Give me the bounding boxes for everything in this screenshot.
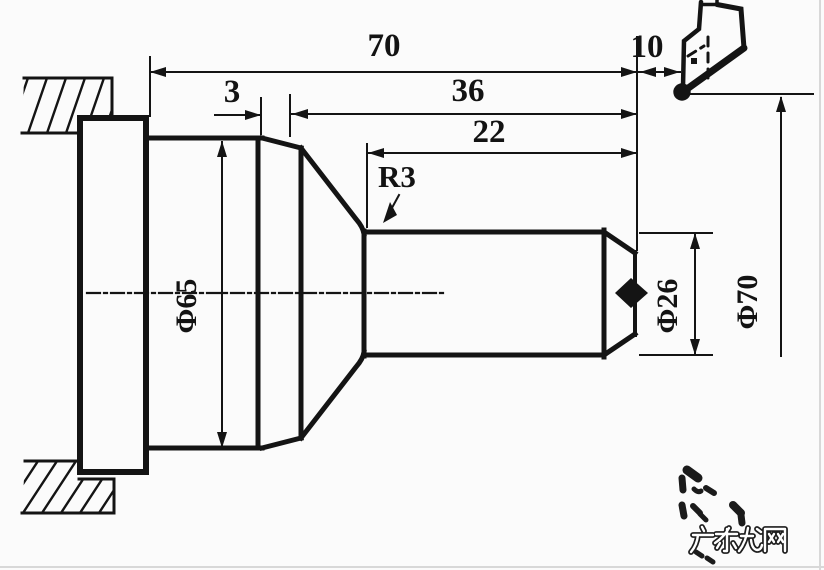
arrow dia26 up bbox=[690, 233, 700, 249]
R3 leader bbox=[387, 195, 399, 217]
arrow R3 bbox=[383, 202, 397, 223]
top chamfer bbox=[262, 138, 301, 148]
body bottom edge bbox=[146, 446, 262, 451]
arrow dia65 up bbox=[217, 141, 227, 157]
watermark text white fill bbox=[691, 527, 785, 552]
dim line dia65 bbox=[221, 142, 223, 447]
chuck jaw bottom step bbox=[22, 479, 114, 513]
body section line x258 bbox=[256, 138, 261, 448]
extension line x290 bbox=[289, 95, 291, 136]
arrow 36 left bbox=[292, 109, 308, 119]
svg-text:10: 10 bbox=[631, 29, 664, 65]
chuck jaw bottom outline bbox=[25, 460, 79, 463]
shaft bottom edge bbox=[364, 353, 604, 358]
svg-text:3: 3 bbox=[224, 74, 241, 110]
dia26 extension top bbox=[640, 232, 712, 234]
svg-text:22: 22 bbox=[473, 114, 506, 150]
tool top notch bbox=[701, 0, 717, 5]
dim line 70 bbox=[150, 71, 637, 73]
dim line 36 bbox=[291, 113, 637, 115]
body top edge bbox=[146, 136, 262, 141]
arrow 22 left bbox=[368, 148, 384, 158]
svg-text:R3: R3 bbox=[378, 159, 416, 194]
arrow 70 left bbox=[150, 67, 166, 77]
centerline bbox=[87, 292, 443, 294]
center drill mark diamond bbox=[615, 278, 648, 308]
arrow 70 right bbox=[621, 67, 637, 77]
arrow 10 right bbox=[664, 67, 680, 77]
part flange bbox=[80, 118, 146, 472]
tool dashed diagonal bbox=[688, 46, 704, 56]
tool top right edge bbox=[717, 5, 744, 49]
watermark logo dashes bbox=[682, 470, 742, 562]
shaft left face bbox=[362, 231, 367, 356]
extension line x261 bbox=[260, 98, 262, 134]
arrow 36 right bbox=[621, 109, 637, 119]
svg-text:36: 36 bbox=[452, 73, 485, 109]
bottom chamfer bbox=[262, 438, 301, 448]
frame edge bottom bbox=[0, 566, 824, 568]
center drill mark circle bbox=[621, 283, 642, 304]
dim line 22 bbox=[367, 152, 637, 154]
tool tip level line bbox=[689, 93, 813, 95]
extension line x150 bbox=[149, 57, 151, 116]
tool cutting edge bbox=[687, 48, 744, 89]
chuck jaw top hatching bbox=[8, 75, 124, 136]
arrow dia26 down bbox=[690, 339, 700, 355]
arrow dia70 up bbox=[776, 96, 786, 112]
chuck jaw bottom hatching bbox=[2, 458, 135, 516]
svg-text:Φ65: Φ65 bbox=[170, 279, 203, 334]
arrowheads bbox=[150, 67, 786, 448]
chuck jaw top outline bbox=[24, 78, 112, 117]
dim line dia70 bbox=[780, 98, 782, 356]
cutting tool bbox=[683, 0, 744, 89]
dim line dia26 bbox=[694, 234, 696, 354]
char guang bbox=[691, 527, 713, 552]
svg-text:70: 70 bbox=[368, 28, 401, 64]
taper section line x301 bbox=[299, 148, 304, 438]
watermark text black outline bbox=[691, 527, 785, 552]
chuck jaw top lower edge bbox=[22, 132, 80, 135]
tool insert square bbox=[691, 58, 697, 64]
dia26 extension bottom bbox=[640, 354, 712, 356]
tool left edge bbox=[683, 2, 701, 87]
dim line 3 bbox=[215, 114, 261, 116]
char long bbox=[739, 528, 762, 551]
top taper with R3 fillet bbox=[301, 148, 364, 234]
svg-text:Φ26: Φ26 bbox=[651, 279, 684, 334]
arrow 3 right bbox=[245, 110, 261, 120]
arrow 10 left bbox=[640, 67, 656, 77]
extension line x367 bbox=[366, 144, 368, 227]
right chamfer end face bbox=[633, 252, 637, 335]
frame edge right bbox=[819, 0, 821, 570]
arrow dia65 down bbox=[217, 432, 227, 448]
char wang bbox=[765, 529, 785, 551]
char dong bbox=[715, 528, 737, 551]
bottom taper bbox=[301, 352, 364, 438]
arrow 22 right bbox=[621, 148, 637, 158]
tool tip dot bbox=[673, 83, 690, 100]
right chamfer bottom bbox=[604, 334, 635, 355]
dim line 10 bbox=[638, 71, 680, 73]
svg-text:Φ70: Φ70 bbox=[731, 275, 764, 330]
shaft right face bbox=[602, 230, 607, 357]
right chamfer top bbox=[604, 232, 635, 253]
tool dashed insert line bbox=[707, 37, 710, 80]
extension line x637 bbox=[636, 37, 638, 250]
shaft top edge bbox=[364, 230, 604, 235]
